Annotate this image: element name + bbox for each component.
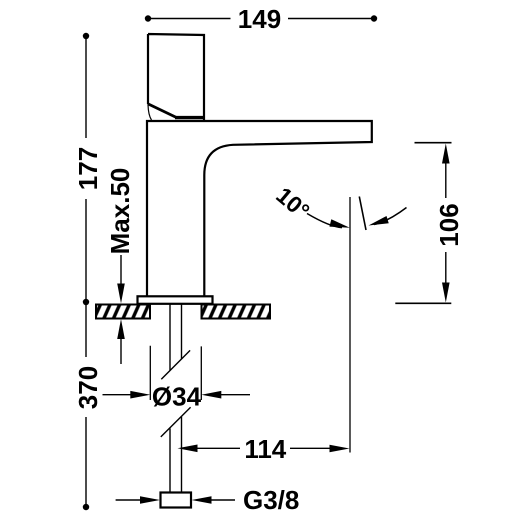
svg-text:106: 106 <box>434 203 464 246</box>
faucet body outline <box>147 121 372 297</box>
handle swing arc <box>148 105 152 121</box>
G3/8 right arrow <box>192 496 212 504</box>
svg-text:177: 177 <box>73 147 103 190</box>
G3/8 left arrow <box>116 499 142 501</box>
dim 177-370 vertical line <box>85 36 87 507</box>
supply pipe upper <box>170 304 182 370</box>
dim 114 left arrow <box>178 445 198 453</box>
dim 106 up arrow <box>442 144 450 164</box>
water stream vertical line <box>349 197 351 453</box>
handle bottom thick bar <box>175 116 204 119</box>
left arc arrow <box>307 214 342 228</box>
base flange <box>138 296 213 304</box>
countertop right hatched <box>202 305 271 319</box>
svg-text:G3/8: G3/8 <box>243 485 299 515</box>
supply pipe lower <box>170 417 182 493</box>
svg-text:Max.50: Max.50 <box>105 168 135 255</box>
svg-text:114: 114 <box>244 434 286 464</box>
dim O34 right arrow <box>201 391 221 399</box>
dim O34 extension lines <box>150 346 201 400</box>
svg-text:370: 370 <box>73 366 103 409</box>
dim 106 bottom tick <box>395 302 451 304</box>
pipe break slash lower <box>161 407 191 437</box>
dim 106 top tick <box>415 142 452 144</box>
G3/8 connector <box>161 493 192 508</box>
right arc arrow <box>374 208 407 225</box>
10 deg tilted line <box>359 197 366 231</box>
pipe break slash upper <box>161 350 190 379</box>
dim 106 down arrow <box>442 283 450 303</box>
faucet handle <box>148 34 204 120</box>
dim 149 line <box>148 18 374 20</box>
countertop left hatched <box>96 305 150 319</box>
dim 114 right part <box>290 447 331 449</box>
dim 149 end dots <box>145 15 151 21</box>
svg-text:149: 149 <box>238 4 281 34</box>
Max.50 down arrow <box>120 255 122 286</box>
Max.50 up arrow <box>117 319 125 339</box>
dim dots <box>83 33 89 39</box>
svg-text:Ø34: Ø34 <box>152 382 202 412</box>
dim 106 line <box>445 162 447 284</box>
dim O34 left arrow <box>103 394 132 396</box>
